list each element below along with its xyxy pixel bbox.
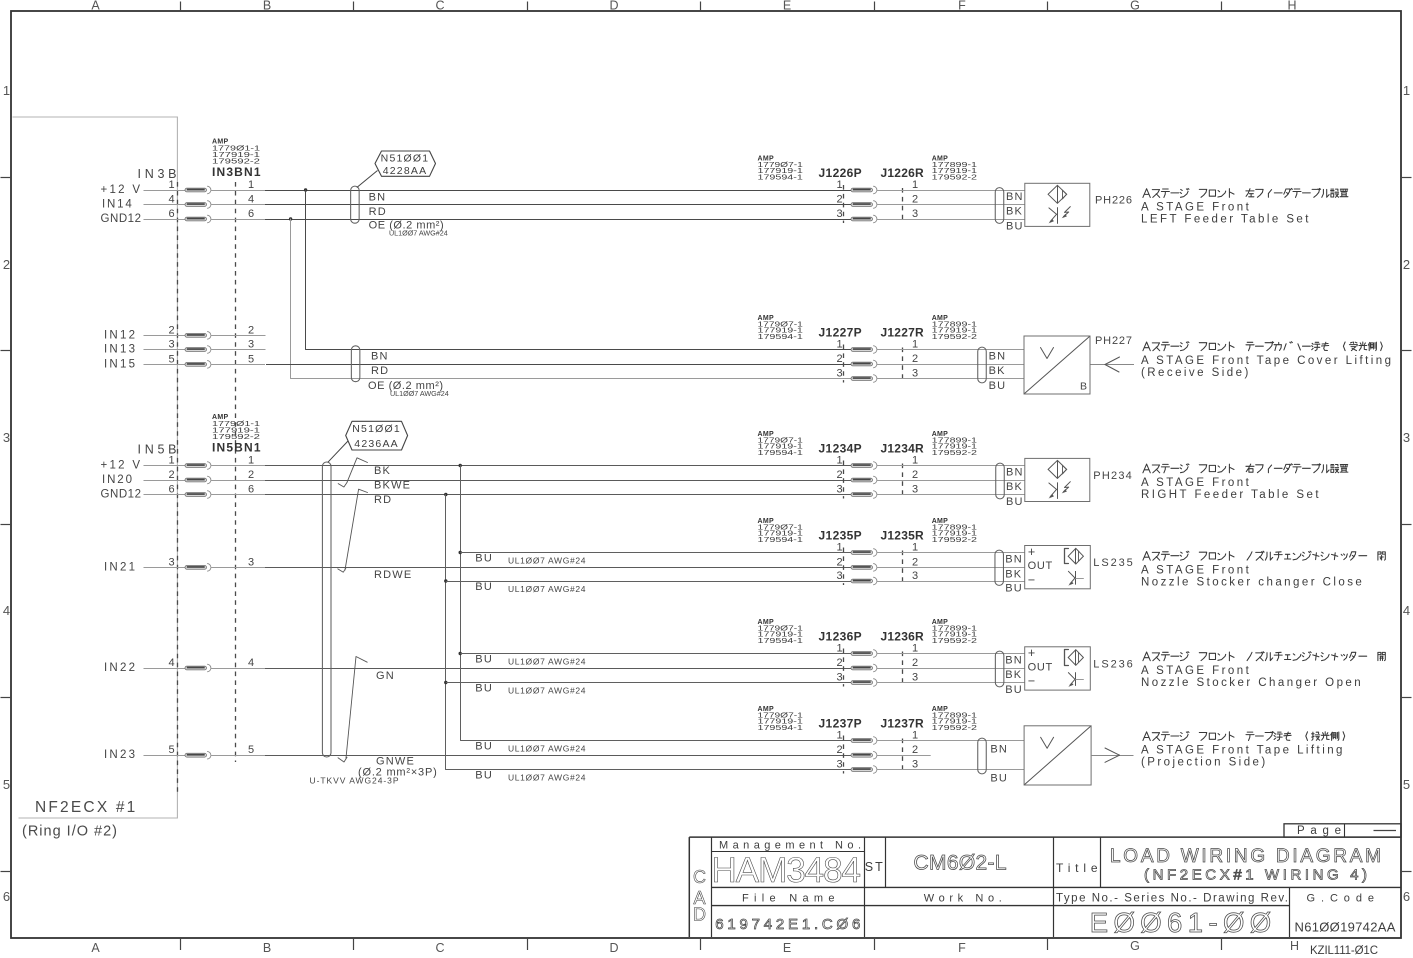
+12V bus wire group1 (265, 190, 851, 192)
junction GND12 to OE drain (289, 217, 292, 220)
svg-text:BN: BN (1006, 467, 1024, 479)
svg-text:4: 4 (168, 194, 174, 206)
svg-text:2: 2 (3, 257, 10, 272)
dashed boundary J1237P (843, 736, 845, 774)
dashed boundary J1235R (902, 551, 904, 584)
svg-text:RD: RD (369, 206, 387, 218)
svg-text:J1226P: J1226P (819, 166, 862, 180)
PH226 japanese description (1143, 188, 1348, 197)
svg-text:Nozzle Stocker Changer Open: Nozzle Stocker Changer Open (1141, 677, 1363, 689)
svg-text:J1234P: J1234P (819, 442, 862, 456)
svg-text:2: 2 (248, 324, 254, 336)
designation zigzag BK/BKWE (347, 458, 368, 483)
svg-text:BU: BU (475, 654, 493, 666)
svg-text:D: D (693, 905, 706, 925)
svg-text:4: 4 (1403, 603, 1410, 618)
svg-text:BKWE: BKWE (374, 479, 411, 491)
svg-text:2: 2 (1403, 257, 1410, 272)
dashed boundary J1227R (902, 348, 904, 381)
dashed boundary J1226P (843, 185, 845, 223)
svg-text:BK: BK (1005, 569, 1022, 581)
svg-text:BK: BK (1006, 481, 1023, 493)
photo sensor PH227 box (1024, 336, 1090, 394)
svg-text:LS236: LS236 (1093, 659, 1134, 671)
GND12 bus wire group IN5B (265, 494, 851, 496)
svg-text:4236AA: 4236AA (354, 438, 399, 450)
svg-text:5: 5 (168, 353, 174, 365)
svg-text:BK: BK (1006, 206, 1023, 218)
svg-text:RD: RD (371, 365, 389, 377)
svg-text:J1237P: J1237P (819, 717, 862, 731)
svg-text:J1236R: J1236R (881, 630, 925, 644)
svg-text:BN: BN (371, 350, 389, 362)
svg-text:BU: BU (475, 741, 493, 753)
svg-text:3: 3 (912, 208, 918, 220)
svg-text:IN22: IN22 (104, 662, 135, 674)
contact pin 1 (185, 464, 207, 468)
svg-text:GND12: GND12 (101, 213, 142, 225)
svg-text:3: 3 (836, 368, 842, 380)
svg-text:A: A (91, 941, 100, 955)
svg-text:BU: BU (1006, 220, 1024, 232)
svg-text:BU: BU (1005, 684, 1023, 696)
dashed boundary J1234R (902, 464, 904, 497)
svg-text:J1234R: J1234R (881, 442, 925, 456)
BU branch to J1235 pin1 (459, 551, 462, 554)
BU branch to J1236 pin3 (444, 681, 447, 684)
svg-text:GND12: GND12 (101, 489, 142, 501)
svg-text:CM6Ø2-L: CM6Ø2-L (914, 852, 1007, 875)
svg-text:D: D (609, 941, 618, 955)
svg-text:(Projection Side): (Projection Side) (1141, 757, 1268, 769)
svg-text:4: 4 (3, 603, 10, 618)
svg-text:2: 2 (912, 469, 918, 481)
svg-text:NF2ECX #1: NF2ECX #1 (35, 799, 138, 816)
contact pin 4 (185, 203, 207, 207)
GND12 bus wire group1 (265, 219, 851, 221)
photo sensor PH234 box (1025, 458, 1090, 501)
svg-text:6: 6 (168, 208, 174, 220)
svg-text:2: 2 (836, 744, 842, 756)
contact pin 2 (185, 478, 207, 482)
svg-text:2: 2 (836, 469, 842, 481)
svg-text:A STAGE Front: A STAGE Front (1141, 202, 1251, 214)
svg-text:5: 5 (1403, 777, 1410, 792)
svg-text:G: G (1130, 939, 1140, 953)
IN14 signal wire (265, 204, 851, 206)
cable oval at J1237R (978, 738, 987, 774)
cable oval at J1226R (995, 188, 1004, 224)
limit sensor LS236 box (1025, 647, 1091, 690)
svg-text:179594-1: 179594-1 (758, 636, 803, 645)
svg-text:BU: BU (1006, 496, 1024, 508)
svg-text:Title: Title (1056, 861, 1098, 875)
svg-text:5: 5 (3, 777, 10, 792)
svg-text:6: 6 (248, 484, 254, 496)
svg-text:J1227P: J1227P (819, 326, 862, 340)
svg-text:BN: BN (989, 351, 1007, 363)
zone ticks right (1401, 177, 1412, 179)
svg-text:1: 1 (836, 730, 842, 742)
svg-text:+: + (1028, 545, 1035, 559)
svg-text:D: D (609, 0, 618, 13)
svg-text:Nozzle Stocker changer Close: Nozzle Stocker changer Close (1141, 576, 1364, 588)
svg-text:UL1ØØ7 AWG#24: UL1ØØ7 AWG#24 (508, 772, 586, 782)
svg-text:IN13: IN13 (104, 344, 135, 356)
svg-text:IN12: IN12 (104, 329, 135, 341)
cable flag N51001 4228AA (375, 151, 436, 176)
+12V bus wire group IN5B (265, 465, 851, 467)
svg-text:UL1ØØ7 AWG#24: UL1ØØ7 AWG#24 (508, 584, 586, 594)
dashed boundary J1237R (902, 739, 904, 772)
cable oval at J1227R (978, 347, 987, 383)
svg-text:Type No.- Series No.- Drawing: Type No.- Series No.- Drawing Rev. (1056, 892, 1288, 904)
svg-text:J1235R: J1235R (881, 529, 925, 543)
dashed boundary J1227P (843, 345, 845, 383)
svg-text:LOAD WIRING DIAGRAM: LOAD WIRING DIAGRAM (1110, 846, 1381, 867)
svg-text:BK: BK (374, 465, 391, 477)
dashed boundary J1235P (843, 548, 845, 586)
contact pin 3 (185, 348, 207, 352)
PH227 japanese description (1143, 342, 1382, 351)
svg-text:3: 3 (836, 208, 842, 220)
svg-text:6: 6 (3, 889, 10, 904)
LS235 japanese description (1143, 551, 1385, 560)
svg-text:UL1ØØ7 AWG#24: UL1ØØ7 AWG#24 (508, 685, 586, 695)
svg-text:IN15: IN15 (104, 358, 135, 370)
svg-text:BK: BK (1005, 669, 1022, 681)
limit sensor LS235 box (1025, 546, 1091, 589)
svg-text:UL1ØØ7 AWG#24: UL1ØØ7 AWG#24 (508, 743, 586, 753)
svg-text:B: B (1080, 381, 1087, 393)
svg-text:N51ØØ1: N51ØØ1 (352, 423, 401, 435)
svg-text:179592-2: 179592-2 (932, 723, 977, 732)
svg-text:3: 3 (912, 672, 918, 684)
svg-text:1: 1 (248, 455, 254, 467)
svg-text:BN: BN (1005, 554, 1023, 566)
svg-text:3: 3 (912, 368, 918, 380)
cable bundle oval N51001/4228AA (351, 186, 360, 223)
photo sensor PH226 box (1025, 183, 1090, 226)
svg-text:PH226: PH226 (1095, 195, 1134, 207)
LS236 japanese description (1143, 652, 1385, 661)
svg-text:2: 2 (836, 353, 842, 365)
svg-text:LS235: LS235 (1093, 557, 1134, 569)
svg-text:J1227R: J1227R (881, 326, 925, 340)
I/O unit NF2ECX #1 block outline (13, 117, 178, 818)
svg-text:1: 1 (836, 542, 842, 554)
svg-text:A: A (91, 0, 100, 13)
svg-text:F: F (958, 0, 966, 13)
svg-text:−: − (1028, 674, 1035, 688)
svg-text:179592-2: 179592-2 (932, 448, 977, 457)
svg-text:3: 3 (248, 339, 254, 351)
svg-text:H: H (1290, 939, 1299, 953)
svg-text:BU: BU (475, 553, 493, 565)
svg-text:BN: BN (1006, 191, 1024, 203)
svg-text:5: 5 (248, 744, 254, 756)
svg-text:BN: BN (1005, 655, 1023, 667)
svg-text:179592-2: 179592-2 (932, 535, 977, 544)
cable oval at J1235R (995, 550, 1004, 585)
svg-text:5: 5 (168, 744, 174, 756)
BU branch to J1235 pin3 (444, 579, 447, 582)
PH234 japanese description (1143, 464, 1348, 473)
title block outline (689, 836, 1401, 838)
IN15 signal wire to J1227 pin2 (266, 364, 851, 366)
svg-text:2: 2 (168, 469, 174, 481)
svg-text:PH234: PH234 (1093, 470, 1133, 482)
svg-text:OUT: OUT (1028, 560, 1053, 572)
svg-text:BU: BU (990, 773, 1008, 785)
svg-text:B: B (263, 0, 271, 13)
svg-text:J1236P: J1236P (819, 630, 862, 644)
svg-text:RIGHT Feeder Table Set: RIGHT Feeder Table Set (1141, 489, 1321, 501)
svg-text:1: 1 (1403, 83, 1410, 98)
svg-text:3: 3 (912, 759, 918, 771)
svg-text:1: 1 (836, 455, 842, 467)
svg-text:U-TKVV AWG24-3P: U-TKVV AWG24-3P (310, 775, 399, 785)
svg-text:+12 V: +12 V (101, 460, 141, 472)
page box (1284, 824, 1401, 837)
projection-side arrow (1091, 755, 1134, 757)
svg-text:HAM3484: HAM3484 (712, 851, 862, 890)
svg-text:(Receive Side): (Receive Side) (1141, 367, 1251, 379)
svg-text:2: 2 (836, 194, 842, 206)
svg-text:2: 2 (912, 556, 918, 568)
svg-text:−: − (1028, 573, 1035, 587)
svg-text:PH227: PH227 (1095, 335, 1134, 347)
svg-text:3: 3 (836, 672, 842, 684)
dashed boundary J1226R (902, 188, 904, 221)
flag leader line (357, 171, 378, 188)
svg-text:C: C (693, 867, 706, 887)
svg-text:IN23: IN23 (104, 749, 135, 761)
dashed boundary J1234P (843, 461, 845, 499)
svg-text:BU: BU (989, 380, 1007, 392)
svg-text:BU: BU (475, 683, 493, 695)
svg-text:4: 4 (248, 657, 254, 669)
IN20 signal wire (265, 480, 851, 482)
svg-text:1: 1 (912, 339, 918, 351)
svg-text:B: B (263, 941, 271, 955)
svg-text:2: 2 (836, 657, 842, 669)
svg-text:A STAGE Front: A STAGE Front (1141, 665, 1251, 677)
receive-side arrow (1091, 364, 1135, 366)
contact pin 5 (185, 363, 207, 367)
svg-text:IN21: IN21 (104, 561, 135, 573)
svg-text:EØØ61-ØØ: EØØ61-ØØ (1090, 907, 1272, 938)
svg-text:UL1ØØ7 AWG#24: UL1ØØ7 AWG#24 (508, 656, 586, 666)
svg-text:UL1ØØ7 AWG#24: UL1ØØ7 AWG#24 (390, 389, 449, 398)
svg-text:3: 3 (248, 556, 254, 568)
dashed boundary J1236P (843, 649, 845, 687)
svg-text:1: 1 (912, 179, 918, 191)
tape lifting japanese description (1143, 732, 1345, 741)
svg-text:179594-1: 179594-1 (758, 448, 803, 457)
svg-text:179592-2: 179592-2 (932, 332, 977, 341)
IN21 signal wire RDWE (265, 567, 851, 569)
svg-text:4: 4 (248, 194, 254, 206)
contact pin 6 (185, 493, 207, 497)
svg-text:2: 2 (912, 657, 918, 669)
svg-text:4228AA: 4228AA (383, 165, 428, 177)
svg-text:BN: BN (369, 191, 387, 203)
svg-text:UL1ØØ7 AWG#24: UL1ØØ7 AWG#24 (508, 555, 586, 565)
svg-text:BN: BN (990, 743, 1008, 755)
junction GND12 feed of BU branches (444, 493, 447, 496)
svg-text:179594-1: 179594-1 (758, 535, 803, 544)
vertical GND12 BU bus (446, 495, 852, 770)
svg-text:H: H (1287, 0, 1296, 13)
svg-text:GN: GN (376, 670, 395, 682)
svg-text:2: 2 (912, 744, 918, 756)
svg-text:J1235P: J1235P (819, 529, 862, 543)
vertical bus +12V down to J1227 (306, 190, 852, 350)
svg-text:1: 1 (912, 455, 918, 467)
zone ticks bottom (180, 938, 182, 950)
svg-text:E: E (783, 941, 791, 955)
svg-text:C: C (435, 941, 444, 955)
svg-text:1: 1 (3, 83, 10, 98)
contact pin 4 (185, 666, 207, 670)
svg-text:179594-1: 179594-1 (758, 173, 803, 182)
svg-text:N51ØØ1: N51ØØ1 (381, 153, 430, 165)
svg-text:1: 1 (836, 339, 842, 351)
svg-text:3: 3 (168, 339, 174, 351)
svg-text:2: 2 (912, 353, 918, 365)
svg-text:2: 2 (836, 556, 842, 568)
svg-text:A STAGE Front Tape Cover Lifti: A STAGE Front Tape Cover Lifting (1141, 355, 1393, 367)
svg-text:1: 1 (836, 179, 842, 191)
svg-text:6: 6 (248, 208, 254, 220)
cable flag N51001 4236AA (346, 421, 408, 450)
svg-text:1: 1 (912, 643, 918, 655)
cable oval at J1236R (995, 651, 1004, 687)
contact pin 1 (185, 188, 207, 192)
svg-text:1: 1 (836, 643, 842, 655)
svg-text:IN20: IN20 (102, 474, 132, 486)
svg-text:3: 3 (1403, 430, 1410, 445)
svg-text:6: 6 (1403, 889, 1410, 904)
junction +12V to PH227 BN (304, 188, 307, 191)
contact pin 6 (185, 217, 207, 221)
svg-text:IN14: IN14 (102, 199, 132, 211)
svg-text:J1237R: J1237R (881, 717, 925, 731)
svg-text:3: 3 (836, 570, 842, 582)
svg-text:A STAGE Front: A STAGE Front (1141, 477, 1251, 489)
IN22 signal wire GN (265, 668, 851, 670)
svg-text:C: C (435, 0, 444, 13)
photo sensor tape lifting box (1024, 726, 1091, 785)
connector boundary dashed line left (177, 182, 179, 794)
contact pin 3 (185, 566, 207, 570)
svg-text:(Ring I/O #2): (Ring I/O #2) (22, 824, 118, 840)
svg-text:6: 6 (168, 484, 174, 496)
junction +12V feed of BU branches (459, 464, 462, 467)
svg-text:BK: BK (989, 365, 1006, 377)
svg-text:F: F (958, 941, 966, 955)
svg-text:A STAGE Front Tape Lifting: A STAGE Front Tape Lifting (1141, 745, 1345, 757)
svg-text:179594-1: 179594-1 (758, 332, 803, 341)
cable bundle oval to PH227 (351, 346, 360, 382)
svg-text:2: 2 (912, 194, 918, 206)
svg-text:RD: RD (374, 494, 392, 506)
svg-text:2: 2 (168, 324, 174, 336)
svg-text:1: 1 (912, 542, 918, 554)
contact pin 5 (185, 753, 207, 757)
IN23 signal wire GNWE (265, 755, 851, 757)
flag leader line 4236AA (328, 441, 348, 462)
designation zigzag GN/GNWE (346, 657, 367, 759)
svg-text:E: E (783, 0, 791, 13)
zone ticks left (1, 177, 12, 179)
contact pin 2 (185, 334, 207, 338)
svg-text:3: 3 (836, 759, 842, 771)
svg-text:G: G (1130, 0, 1140, 13)
long cable oval U-TKVV (322, 462, 331, 757)
svg-text:J1226R: J1226R (881, 166, 925, 180)
svg-text:5: 5 (248, 353, 254, 365)
svg-text:BU: BU (475, 581, 493, 593)
vertical OE drain to J1227 (291, 219, 852, 379)
svg-text:+12 V: +12 V (101, 184, 141, 196)
svg-text:UL1ØØ7 AWG#24: UL1ØØ7 AWG#24 (389, 228, 448, 237)
svg-text:BU: BU (1005, 582, 1023, 594)
svg-text:2: 2 (248, 469, 254, 481)
svg-text:IN3BN1: IN3BN1 (212, 165, 261, 179)
designation zigzag RD/RDWE (345, 489, 368, 570)
svg-text:A STAGE Front: A STAGE Front (1141, 564, 1251, 576)
svg-text:3: 3 (912, 484, 918, 496)
svg-text:1: 1 (912, 730, 918, 742)
svg-text:N61ØØ19742AA: N61ØØ19742AA (1295, 920, 1396, 935)
svg-text:1: 1 (248, 179, 254, 191)
svg-text:RDWE: RDWE (374, 569, 412, 581)
svg-text:179594-1: 179594-1 (758, 723, 803, 732)
svg-text:+: + (1028, 646, 1035, 660)
svg-text:3: 3 (912, 570, 918, 582)
svg-text:IN5BN1: IN5BN1 (212, 440, 261, 454)
svg-text:KZIL111-Ø1C: KZIL111-Ø1C (1310, 945, 1378, 957)
svg-text:LEFT Feeder Table Set: LEFT Feeder Table Set (1141, 214, 1311, 226)
svg-text:179592-2: 179592-2 (932, 636, 977, 645)
svg-text:4: 4 (168, 657, 174, 669)
svg-text:BU: BU (475, 770, 493, 782)
BU branch to J1236 pin1 (459, 652, 462, 655)
svg-text:3: 3 (3, 430, 10, 445)
svg-text:179592-2: 179592-2 (932, 173, 977, 182)
zone ticks top (180, 2, 182, 12)
connector boundary dashed line right (235, 182, 237, 762)
dashed boundary J1236R (902, 652, 904, 685)
cable oval at J1234R (996, 463, 1005, 499)
svg-text:3: 3 (836, 484, 842, 496)
svg-text:3: 3 (168, 556, 174, 568)
vertical +12V BU bus (461, 466, 852, 741)
svg-text:OUT: OUT (1028, 661, 1053, 673)
